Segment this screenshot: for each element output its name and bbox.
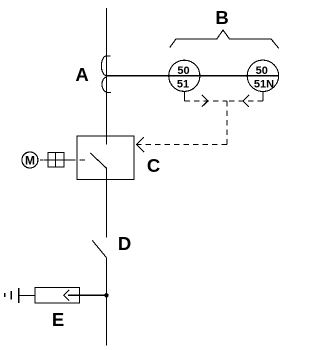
svg-text:B: B xyxy=(215,7,228,28)
junction node dot xyxy=(104,293,108,297)
dashed control wire from relay 50/51 xyxy=(183,92,185,101)
wire: feeder horizontal to relays xyxy=(106,75,278,77)
svg-text:50: 50 xyxy=(177,65,189,77)
svg-text:C: C xyxy=(147,155,160,176)
svg-text:50: 50 xyxy=(256,65,268,77)
wire: main bus vertical (top to breaker) xyxy=(105,8,107,145)
mechanism box (crossed square) xyxy=(44,152,70,167)
fuse E box xyxy=(35,288,79,304)
svg-text:M: M xyxy=(25,153,35,167)
wire: breaker lower stem to disconnect xyxy=(105,168,107,238)
arrow toward junction (left-pointing) xyxy=(243,95,249,107)
arrow toward junction (right-pointing) xyxy=(202,95,208,107)
dashed link from mechanism to breaker blade xyxy=(70,159,87,161)
dashed control wire from relay 50/51N xyxy=(262,92,264,101)
svg-text:51N: 51N xyxy=(254,78,274,90)
brace B xyxy=(170,30,279,48)
CT A (current transformer arcs) xyxy=(101,56,111,93)
dash between M and mechanism box xyxy=(40,159,44,161)
breaker C contact blade xyxy=(90,153,106,168)
breaker C box xyxy=(77,136,134,180)
disconnect D blade xyxy=(92,240,106,257)
wire: disconnect to bottom xyxy=(105,257,107,345)
ground (horizontal, pointing left) xyxy=(5,288,19,303)
fuse arrow (left pointing, tail to bus) xyxy=(64,290,69,301)
motor operator M xyxy=(22,152,38,168)
relay U2 50/51N xyxy=(247,60,278,91)
svg-text:D: D xyxy=(118,233,131,254)
wire: horizontal to fuse E xyxy=(19,294,106,296)
arrow into breaker C xyxy=(136,137,144,152)
svg-text:E: E xyxy=(52,309,64,330)
svg-text:A: A xyxy=(75,64,88,85)
svg-text:51: 51 xyxy=(177,78,189,90)
relay U1 50/51 xyxy=(169,60,200,91)
dashed control wire down and to breaker xyxy=(226,101,228,145)
